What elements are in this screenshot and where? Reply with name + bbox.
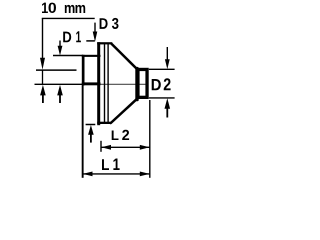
D2 up arrowhead [165,98,171,109]
L1 left extension line [82,86,84,178]
centerline through body and neck [97,83,149,85]
cone right face [135,67,138,101]
D2 down arrowhead [165,59,170,69]
body top edge [97,42,112,44]
body left face [97,42,100,125]
hub top edge [82,55,101,57]
label L 1 [102,159,120,171]
label D 2 [152,78,171,90]
L1 left arrowhead [83,172,93,177]
D3 up arrow tail [90,134,92,143]
centerline [35,83,98,85]
D1 extension line [53,55,83,57]
cone bottom slope [111,100,136,123]
label D 1 [63,31,81,42]
L2 left arrowhead [101,145,111,150]
right extension line [149,100,151,178]
L1 right arrowhead [140,172,150,177]
L2 right arrowhead [140,145,150,150]
extension line A [36,69,77,71]
body inner line 2 [107,43,108,124]
10 mm down arrowhead [40,58,45,70]
D3 up arrowhead [88,125,94,135]
D1 down arrowhead [58,46,63,56]
body bottom edge [97,122,111,124]
D3 top extension line [86,40,95,42]
D2 top extension line [149,68,175,70]
D3 arrow stem [94,23,96,32]
D1 arrow stem [59,41,61,47]
L1 dimension line [83,173,150,175]
label 10 mm [42,3,85,13]
L2 left extension stub [100,141,102,152]
D1 up arrow tail [59,95,61,103]
10 mm up arrowhead [40,85,46,96]
label L 2 [112,130,129,140]
D3 bottom extension line [86,124,96,126]
cone top slope [112,44,137,68]
D2 up arrow tail [166,108,168,117]
D2 arrow stem [166,47,168,60]
D1 up arrowhead [57,85,63,96]
body inner line 1 [104,43,105,124]
dimension line crossing A to centerline [42,70,44,85]
D2 bottom extension line [149,97,175,99]
label D 3 [100,18,119,29]
hub left edge [82,55,85,86]
neck outline [138,69,147,97]
10 mm vertical dimension line [42,18,44,59]
hub bottom edge [82,82,101,85]
L2 dimension line [101,146,150,148]
D3 down arrowhead [93,32,98,42]
leader line under 10 mm [42,17,95,19]
10 mm up arrow tail [42,95,44,103]
